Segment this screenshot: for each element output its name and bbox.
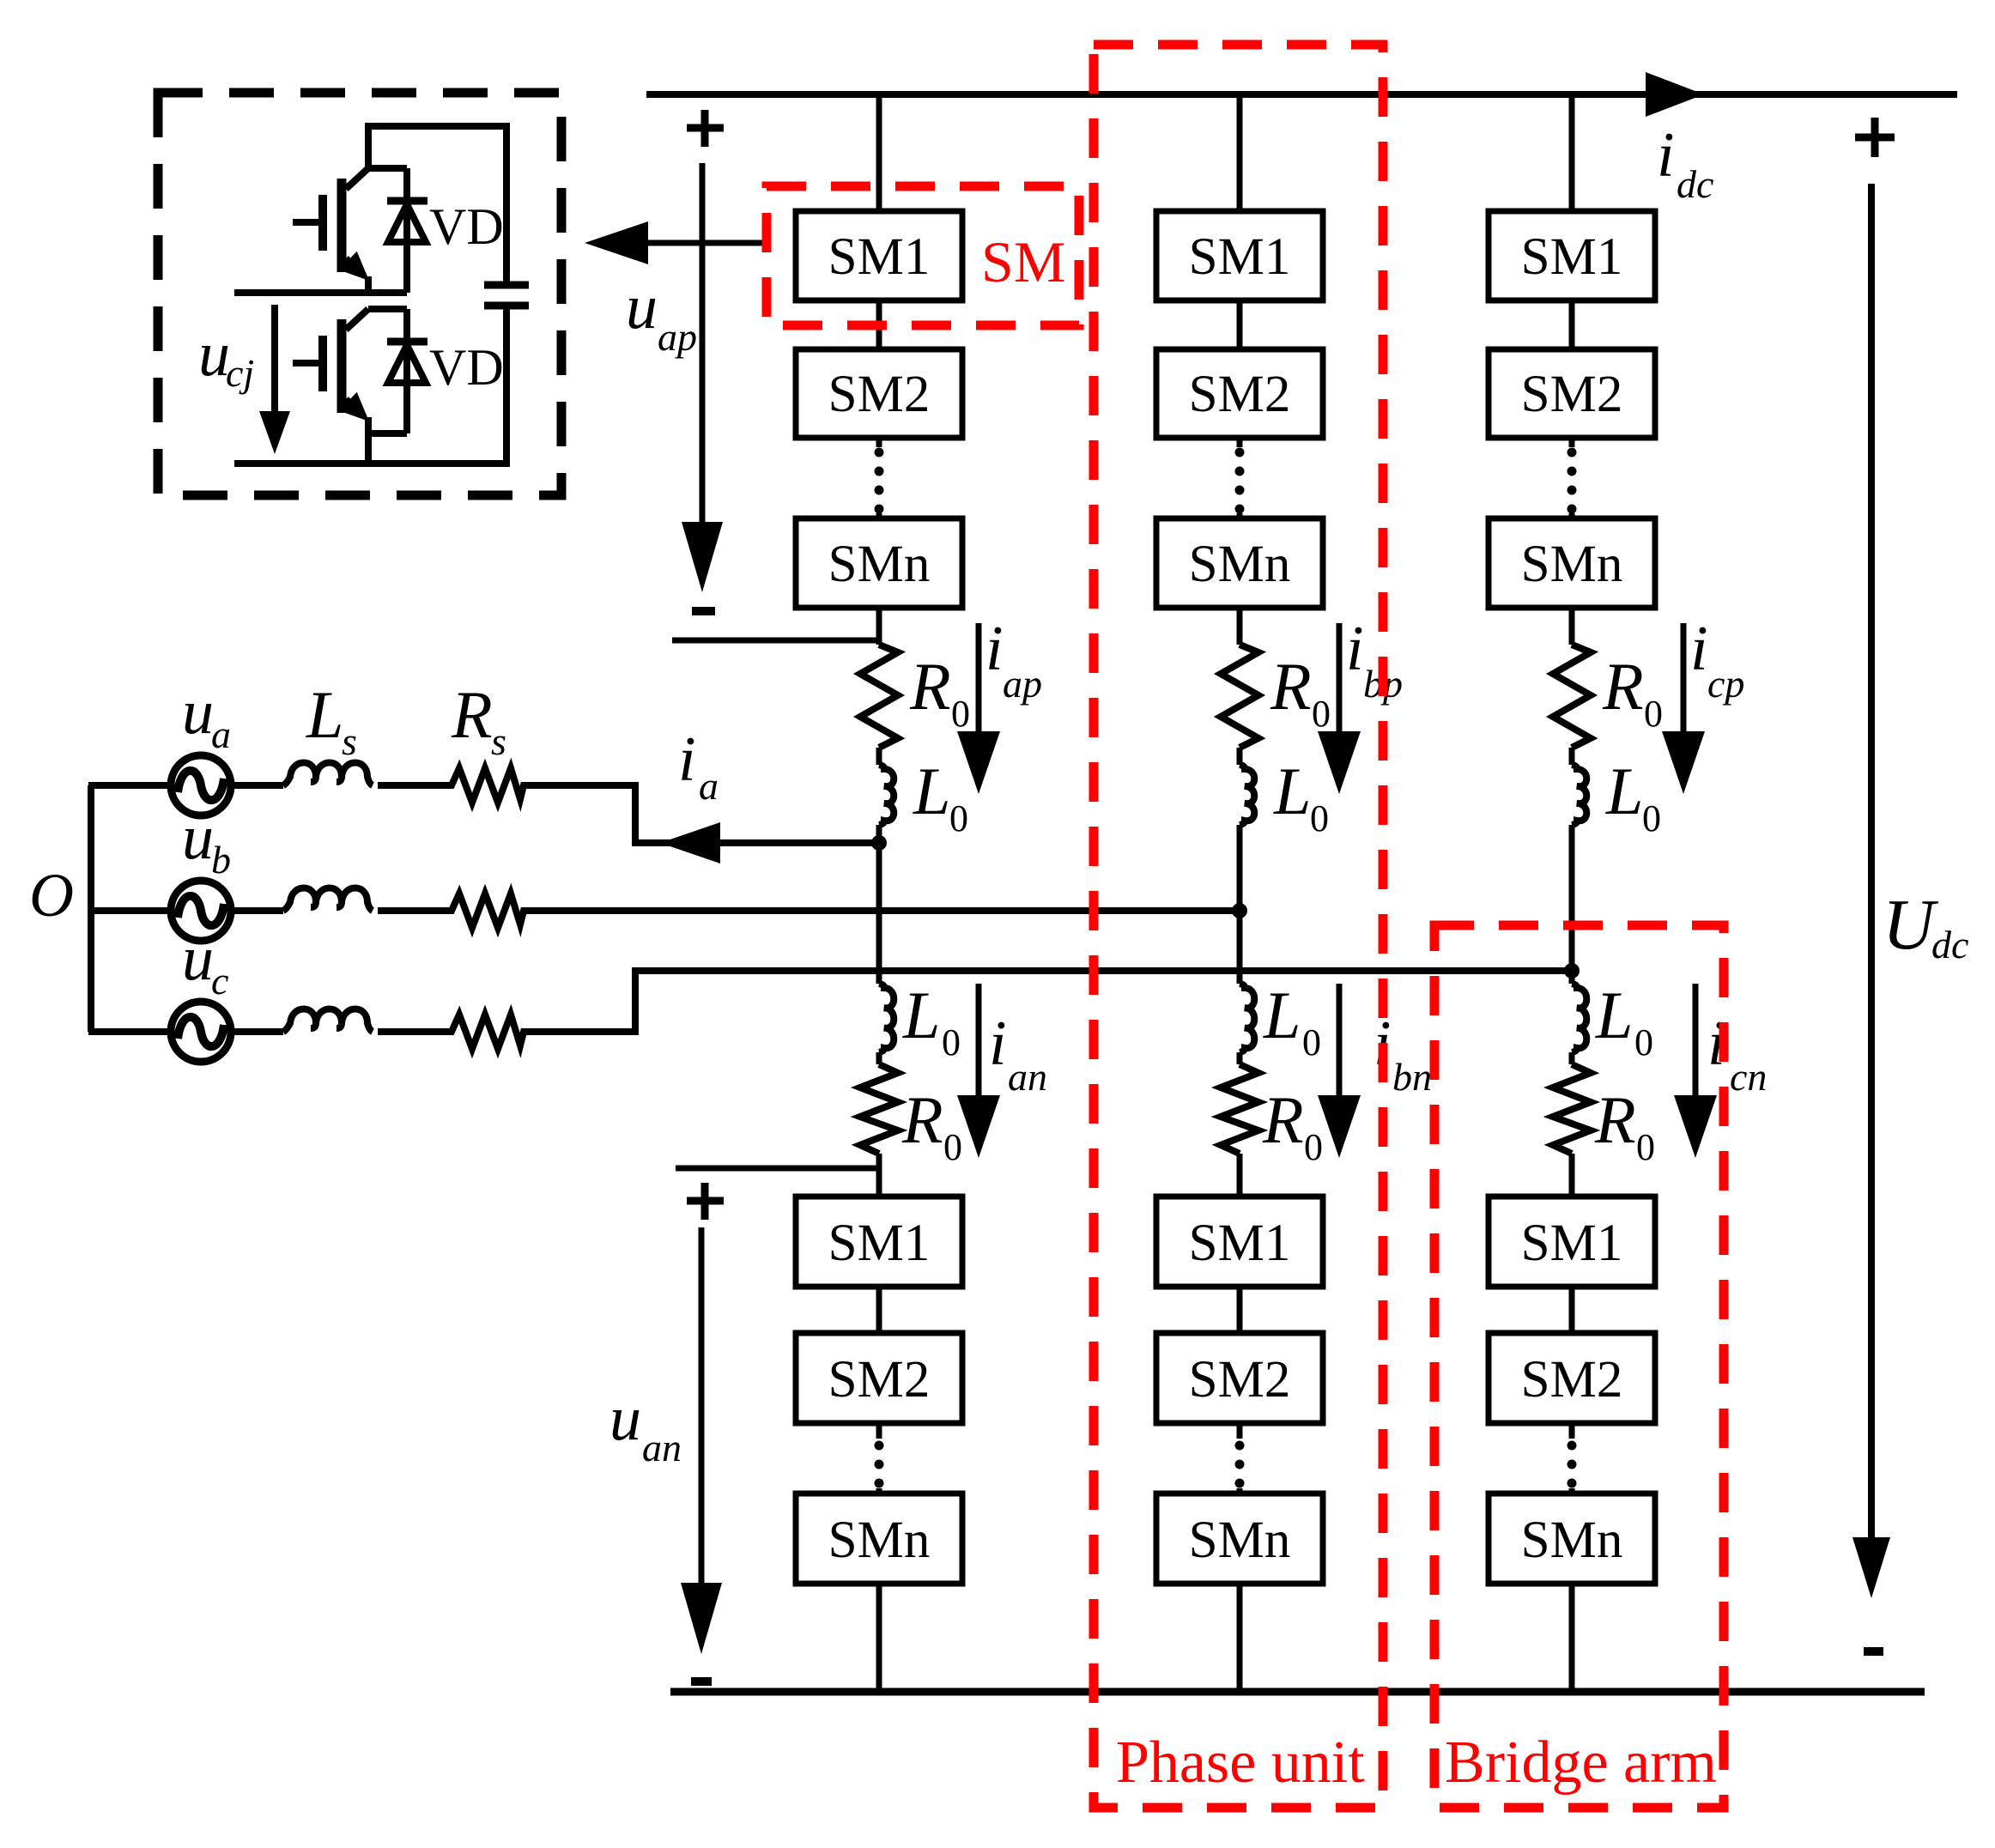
wire phase b to converter (528, 907, 1240, 914)
submodule SM2 upper arm phase c (1489, 349, 1655, 438)
wire SMn to negative bus a (876, 1584, 882, 1692)
svg-text:R: R (1270, 649, 1312, 724)
submodule SM1 lower arm phase a (796, 1197, 962, 1287)
AC source u_b (88, 881, 231, 941)
submodule SM1 upper arm phase b (1156, 211, 1323, 300)
svg-text:L: L (902, 978, 940, 1052)
svg-text:0: 0 (949, 797, 968, 839)
svg-text:L: L (306, 677, 343, 752)
svg-text:0: 0 (1304, 1126, 1323, 1168)
wire SM1-SM2 lower a (876, 1287, 882, 1333)
wire: negative DC bus (670, 1688, 1925, 1696)
svg-text:SM1: SM1 (828, 1215, 931, 1272)
wire R0 to SM1 lower b (1237, 1154, 1243, 1197)
svg-text:VD: VD (429, 339, 504, 396)
wire: phase c leg drop from DC bus (1569, 94, 1575, 211)
wire SMn to R0 upper a (876, 608, 882, 645)
wire: detail top rail (368, 123, 506, 130)
wire and ellipsis dots lower arm c (1567, 1423, 1577, 1494)
wire Ls to Rs phase c (378, 1028, 446, 1035)
wire and ellipsis dots upper arm c (1567, 438, 1577, 518)
wire SM1-SM2 upper c (1569, 300, 1575, 349)
svg-text:VD: VD (429, 198, 504, 255)
inductor Ls phase b (283, 888, 373, 912)
resistor R0 lower arm phase c (1553, 1064, 1591, 1154)
inductor L0 lower arm phase b (1240, 984, 1254, 1052)
wire L0-R0 lower c (1569, 1052, 1575, 1064)
wire phase c to converter with step (528, 971, 1572, 1032)
svg-text:ap: ap (1003, 662, 1042, 706)
svg-text:SMn: SMn (828, 1512, 931, 1569)
svg-text:0: 0 (1636, 1126, 1655, 1168)
wire SM1-SM2 lower c (1569, 1287, 1575, 1333)
red dashed box Bridge arm (1434, 925, 1724, 1808)
submodule SMn upper arm phase c (1489, 518, 1655, 608)
inductor L0 lower arm phase a (879, 984, 894, 1052)
wire L0-R0 lower b (1237, 1052, 1243, 1064)
wire stub at lower arm top (u_an reference) (676, 1166, 879, 1172)
wire R0-L0 upper c (1569, 748, 1575, 765)
plus sign U_dc (1855, 118, 1895, 157)
submodule SM2 lower arm phase c (1489, 1333, 1655, 1423)
resistor Rs phase b (446, 894, 528, 928)
submodule SM2 upper arm phase a (796, 349, 962, 438)
wire Ls to Rs phase b (378, 907, 446, 914)
svg-text:u: u (182, 677, 214, 748)
wire SM1-SM2 upper b (1237, 300, 1243, 349)
wire source to Ls phase c (231, 1028, 283, 1035)
submodule SMn lower arm phase b (1156, 1494, 1323, 1584)
svg-text:0: 0 (1310, 797, 1329, 839)
svg-text:SM2: SM2 (1189, 366, 1291, 423)
svg-text:R: R (901, 1082, 943, 1157)
svg-text:O: O (29, 861, 74, 930)
svg-text:SMn: SMn (1189, 1512, 1291, 1569)
wire: detail midpoint rail (234, 289, 368, 296)
wire and ellipsis dots upper arm a (875, 438, 884, 518)
svg-text:i: i (1690, 614, 1708, 684)
svg-text:0: 0 (942, 1021, 961, 1063)
arrow i_ap upper arm current (957, 623, 1000, 794)
wire R0 to SM1 lower a (876, 1154, 882, 1197)
wire: collector drop T1 (365, 123, 372, 168)
wire: AC neutral vertical link (88, 785, 94, 1032)
resistor R0 lower arm phase a (860, 1064, 898, 1154)
svg-text:cj: cj (226, 351, 254, 395)
svg-text:0: 0 (1642, 797, 1661, 839)
wire: phase a leg drop from DC bus (876, 94, 882, 211)
svg-text:R: R (1262, 1082, 1304, 1157)
wire: detail bottom rail (234, 460, 508, 467)
wire and ellipsis dots lower arm a (875, 1423, 884, 1494)
svg-text:L: L (1605, 754, 1643, 828)
inductor L0 upper arm phase a (879, 765, 894, 825)
wire source to Ls phase a (231, 782, 283, 789)
svg-text:Phase unit: Phase unit (1116, 1730, 1365, 1796)
wire: capacitor branch lower (503, 306, 510, 467)
wire R0-L0 upper a (876, 748, 882, 765)
svg-text:SM2: SM2 (1521, 1351, 1623, 1409)
svg-text:R: R (451, 677, 493, 752)
resistor Rs phase a (446, 768, 528, 803)
submodule SM2 lower arm phase a (796, 1333, 962, 1423)
submodule SM1 lower arm phase c (1489, 1197, 1655, 1287)
svg-text:SM2: SM2 (828, 1351, 931, 1409)
wire and ellipsis dots upper arm b (1235, 438, 1245, 518)
minus sign u_an (691, 1677, 712, 1686)
node: AC junction phase b (1232, 903, 1247, 918)
arrow i_bn lower arm current (1318, 984, 1361, 1158)
arrow i_dc on DC bus (1646, 72, 1704, 117)
svg-text:s: s (342, 719, 357, 763)
svg-text:b: b (211, 838, 231, 882)
wire: phase b leg drop from DC bus (1237, 94, 1243, 211)
submodule SM2 upper arm phase b (1156, 349, 1323, 438)
wire: lower IGBT emitter to bottom rail (365, 433, 372, 467)
svg-text:cn: cn (1730, 1055, 1767, 1099)
wire SM1-SM2 lower b (1237, 1287, 1243, 1333)
svg-text:i: i (985, 614, 1004, 684)
submodule SMn lower arm phase c (1489, 1494, 1655, 1584)
resistor R0 lower arm phase b (1221, 1064, 1258, 1154)
wire source to Ls phase b (231, 907, 283, 914)
diode VD (lower) (368, 309, 427, 433)
svg-text:i: i (1346, 614, 1364, 684)
inductor L0 lower arm phase c (1572, 984, 1586, 1052)
arrow pointing to SM detail (585, 221, 767, 264)
svg-text:0: 0 (1634, 1021, 1653, 1063)
plus sign u_ap (687, 110, 724, 147)
svg-text:SM1: SM1 (1189, 228, 1291, 286)
arrow u_an voltage (681, 1227, 722, 1654)
submodule SMn upper arm phase b (1156, 518, 1323, 608)
svg-text:L: L (913, 754, 950, 828)
red dashed box SM (767, 186, 1079, 325)
minus sign U_dc (1864, 1647, 1883, 1656)
svg-text:an: an (642, 1426, 682, 1469)
wire and ellipsis dots lower arm b (1235, 1423, 1245, 1494)
svg-text:SM1: SM1 (1521, 1215, 1623, 1272)
resistor R0 upper arm phase c (1553, 645, 1591, 748)
inductor L0 upper arm phase c (1572, 765, 1586, 825)
svg-text:i: i (1657, 120, 1675, 191)
minus sign u_ap (692, 607, 715, 615)
svg-text:0: 0 (951, 693, 970, 735)
svg-text:i: i (989, 1009, 1007, 1079)
inductor Ls phase c (283, 1009, 373, 1033)
svg-text:SM2: SM2 (1521, 366, 1623, 423)
submodule SM1 upper arm phase c (1489, 211, 1655, 300)
svg-text:c: c (211, 959, 228, 1003)
plus sign u_an (687, 1183, 724, 1220)
svg-text:s: s (491, 719, 506, 763)
wire Ls to Rs phase a (378, 782, 446, 789)
svg-text:SM: SM (981, 229, 1065, 294)
svg-text:cp: cp (1707, 662, 1744, 706)
red dashed box Phase unit (1094, 45, 1383, 1808)
submodule SM1 lower arm phase b (1156, 1197, 1323, 1287)
diode VD (upper) (368, 168, 427, 293)
wire: positive DC bus (646, 91, 1957, 98)
arrow i_cn lower arm current (1674, 984, 1717, 1158)
svg-text:0: 0 (1644, 693, 1663, 735)
svg-text:SM1: SM1 (1521, 228, 1623, 286)
svg-text:Bridge arm: Bridge arm (1445, 1730, 1717, 1796)
svg-text:SMn: SMn (828, 536, 931, 593)
resistor R0 upper arm phase a (860, 645, 898, 748)
resistor R0 upper arm phase b (1221, 645, 1258, 748)
AC source u_a (88, 755, 231, 815)
wire SMn to R0 upper c (1569, 608, 1575, 645)
svg-text:SM1: SM1 (1189, 1215, 1291, 1272)
svg-text:R: R (909, 649, 951, 724)
wire: phase b mid column through AC junction (1237, 825, 1243, 984)
arrow U_dc voltage (1852, 184, 1890, 1598)
transistor T (upper) IGBT (293, 168, 369, 293)
svg-text:i: i (678, 724, 696, 795)
arrow i_cp upper arm current (1662, 623, 1705, 794)
submodule SM1 upper arm phase a (796, 211, 962, 300)
wire: capacitor branch upper (503, 123, 510, 283)
wire stub at upper arm bottom (u_ap reference) (672, 638, 879, 644)
wire SM1-SM2 upper a (876, 300, 882, 349)
inductor L0 upper arm phase b (1240, 765, 1254, 825)
svg-text:SM2: SM2 (1189, 1351, 1291, 1409)
wire SMn to negative bus c (1569, 1584, 1575, 1692)
svg-text:u: u (626, 272, 658, 342)
wire: phase a mid column through AC junction (876, 825, 882, 984)
svg-text:u: u (182, 803, 214, 873)
svg-text:SM2: SM2 (828, 366, 931, 423)
arrow i_bp upper arm current (1318, 623, 1361, 794)
svg-text:SM1: SM1 (828, 228, 931, 286)
submodule SM2 lower arm phase b (1156, 1333, 1323, 1423)
resistor Rs phase c (446, 1015, 528, 1049)
black dashed box: SM detail (158, 93, 561, 495)
svg-text:L: L (1263, 978, 1301, 1052)
inductor Ls phase a (283, 763, 373, 786)
svg-text:0: 0 (1312, 693, 1331, 735)
svg-text:a: a (699, 764, 719, 808)
svg-text:R: R (1602, 649, 1644, 724)
wire SMn to negative bus b (1237, 1584, 1243, 1692)
wire R0-L0 upper b (1237, 748, 1243, 765)
arrow i_an lower arm current (957, 984, 1000, 1158)
svg-text:L: L (1595, 978, 1633, 1052)
submodule SMn lower arm phase a (796, 1494, 962, 1584)
capacitor C plates (484, 285, 529, 306)
svg-text:0: 0 (943, 1126, 962, 1168)
svg-text:u: u (609, 1384, 641, 1454)
svg-text:dc: dc (1931, 923, 1968, 966)
wire: phase c mid column through AC junction (1569, 825, 1575, 984)
AC source u_c (88, 1002, 231, 1062)
wire R0 to SM1 lower c (1569, 1154, 1575, 1197)
svg-text:a: a (211, 712, 231, 756)
arrow i_a phase current (660, 822, 720, 863)
transistor T (lower) IGBT (293, 309, 369, 433)
svg-text:R: R (1594, 1082, 1636, 1157)
svg-text:bn: bn (1392, 1055, 1432, 1099)
svg-text:u: u (182, 924, 214, 994)
svg-text:dc: dc (1677, 162, 1713, 206)
submodule SMn upper arm phase a (796, 518, 962, 608)
node: AC junction phase a (871, 835, 887, 851)
svg-text:SMn: SMn (1521, 1512, 1623, 1569)
svg-text:ap: ap (658, 315, 697, 359)
svg-text:an: an (1008, 1055, 1047, 1099)
svg-text:L: L (1273, 754, 1311, 828)
svg-text:0: 0 (1302, 1021, 1321, 1063)
wire SMn to R0 upper b (1237, 608, 1243, 645)
arrow u_cj capacitor voltage (259, 305, 290, 454)
node: AC junction phase c (1564, 963, 1580, 979)
svg-text:SMn: SMn (1189, 536, 1291, 593)
arrow u_ap voltage (682, 163, 723, 592)
wire phase a to converter with step (528, 785, 879, 843)
wire L0-R0 lower a (876, 1052, 882, 1064)
svg-text:SMn: SMn (1521, 536, 1623, 593)
